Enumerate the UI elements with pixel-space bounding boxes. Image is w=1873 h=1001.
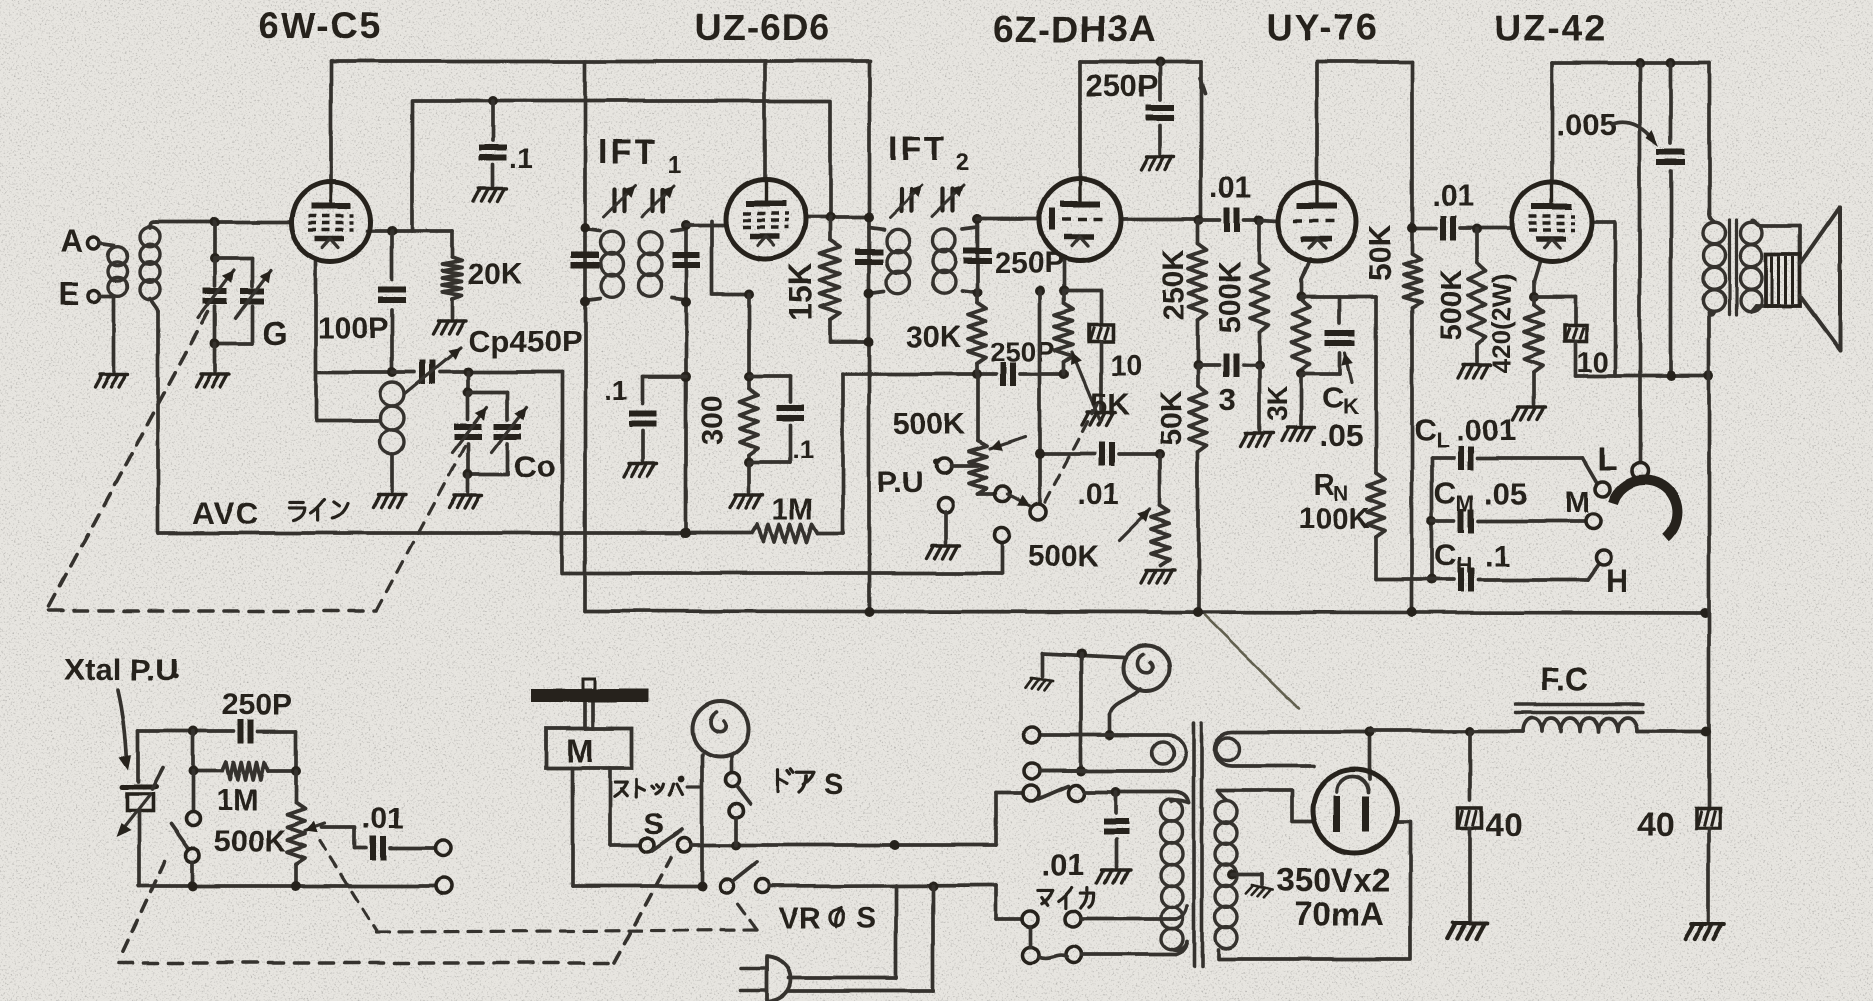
svg-text:Xtal P.U: Xtal P.U <box>64 652 177 687</box>
svg-text:P.U: P.U <box>877 466 923 499</box>
svg-text:50K: 50K <box>1362 224 1397 281</box>
svg-text:2: 2 <box>956 149 969 176</box>
svg-text:.1: .1 <box>1484 538 1510 573</box>
svg-text:F.C: F.C <box>1540 661 1588 697</box>
svg-text:420(2W): 420(2W) <box>1487 273 1517 373</box>
svg-text:1M: 1M <box>770 518 772 520</box>
svg-text:L: L <box>1598 441 1618 477</box>
svg-text:70mA: 70mA <box>1294 895 1384 932</box>
svg-text:Cp450P: Cp450P <box>468 324 582 359</box>
svg-text:500K: 500K <box>1214 261 1247 333</box>
svg-text:.005: .005 <box>1556 107 1616 142</box>
svg-text:.1: .1 <box>792 434 814 464</box>
svg-text:30K: 30K <box>906 321 961 354</box>
svg-text:M: M <box>1565 486 1590 519</box>
svg-text:C: C <box>1414 412 1436 447</box>
svg-text:15K: 15K <box>782 263 818 322</box>
svg-text:1M: 1M <box>216 784 258 817</box>
svg-text:G: G <box>262 314 288 351</box>
svg-text:A: A <box>60 223 83 259</box>
svg-text:500K: 500K <box>1028 540 1100 573</box>
svg-text:.1: .1 <box>604 375 627 406</box>
svg-text:6W-C5: 6W-C5 <box>258 5 382 46</box>
svg-text:250K: 250K <box>1158 249 1191 321</box>
svg-text:H: H <box>1606 563 1629 599</box>
svg-text:Co: Co <box>514 449 555 484</box>
svg-text:3K: 3K <box>1261 386 1292 422</box>
svg-text:350Vx2: 350Vx2 <box>1276 861 1390 898</box>
svg-text:.01: .01 <box>1210 172 1252 205</box>
svg-text:R: R <box>1313 468 1335 501</box>
svg-text:IFT: IFT <box>598 133 658 171</box>
svg-text:.01: .01 <box>362 802 404 835</box>
svg-text:250P: 250P <box>1086 68 1158 103</box>
svg-text:.05: .05 <box>1484 476 1527 511</box>
svg-text:.01: .01 <box>1042 847 1085 882</box>
svg-text:VR: VR <box>779 902 821 935</box>
svg-text:.01: .01 <box>1077 478 1119 511</box>
svg-text:M: M <box>1456 491 1474 516</box>
svg-text:500K: 500K <box>893 408 965 441</box>
svg-text:IFT: IFT <box>888 130 948 168</box>
svg-text:1: 1 <box>668 151 681 178</box>
svg-text:500K: 500K <box>1435 269 1468 341</box>
svg-text:UZ-6D6: UZ-6D6 <box>695 7 831 48</box>
svg-text:.1: .1 <box>510 143 533 174</box>
svg-text:300: 300 <box>696 395 729 445</box>
svg-text:S: S <box>824 769 843 801</box>
svg-text:500K: 500K <box>214 825 286 858</box>
svg-text:C: C <box>1434 476 1456 511</box>
svg-text:K: K <box>1343 394 1359 419</box>
svg-text:S: S <box>644 808 664 841</box>
svg-text:M: M <box>566 732 594 769</box>
svg-text:H: H <box>1456 553 1472 578</box>
svg-text:250P: 250P <box>222 688 292 721</box>
svg-text:UZ-42: UZ-42 <box>1494 8 1607 49</box>
svg-text:.05: .05 <box>1320 418 1363 453</box>
svg-text:3: 3 <box>1219 382 1236 417</box>
svg-text:250P: 250P <box>990 336 1055 367</box>
svg-text:10: 10 <box>1110 350 1142 382</box>
svg-text:UY-76: UY-76 <box>1266 7 1379 48</box>
svg-text:1M: 1M <box>772 493 814 526</box>
svg-text:40: 40 <box>1486 806 1523 843</box>
svg-text:E: E <box>58 276 79 312</box>
svg-text:.01: .01 <box>1432 180 1474 213</box>
svg-text:C: C <box>1322 380 1344 415</box>
svg-text:S: S <box>856 902 876 935</box>
svg-text:L: L <box>1436 427 1449 452</box>
svg-text:C: C <box>1434 538 1456 573</box>
svg-text:50K: 50K <box>1155 390 1188 445</box>
svg-text:40: 40 <box>1637 806 1674 843</box>
svg-text:AVC: AVC <box>193 496 259 531</box>
svg-text:6Z-DH3A: 6Z-DH3A <box>993 9 1156 50</box>
svg-text:100K: 100K <box>1298 502 1370 535</box>
svg-text:.001: .001 <box>1456 412 1516 447</box>
svg-text:100P: 100P <box>318 312 388 345</box>
svg-text:20K: 20K <box>468 258 523 291</box>
